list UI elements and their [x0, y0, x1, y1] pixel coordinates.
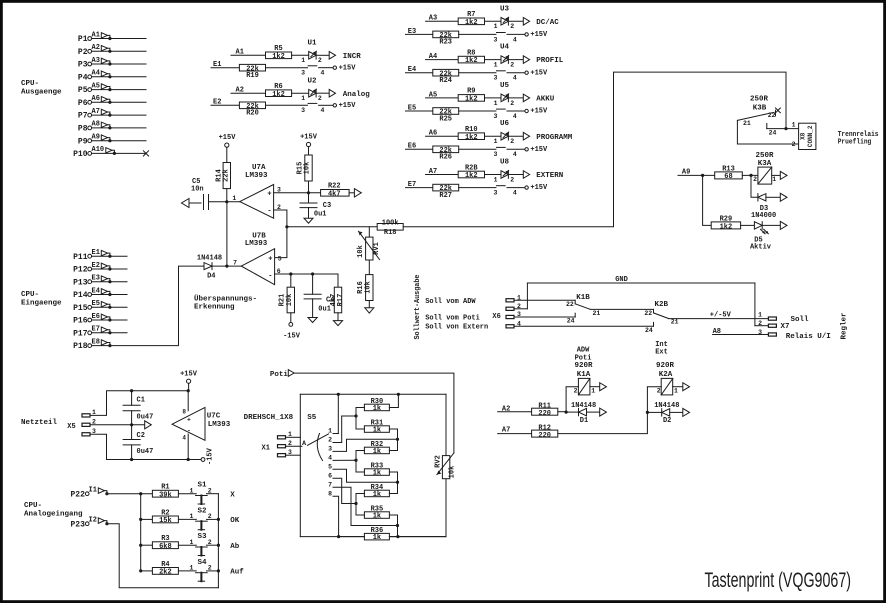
svg-text:250R: 250R [755, 152, 774, 160]
svg-text:4: 4 [513, 75, 517, 82]
svg-text:4: 4 [513, 36, 517, 43]
svg-text:Poti: Poti [270, 371, 289, 379]
svg-text:3: 3 [301, 107, 305, 114]
svg-text:U5: U5 [500, 82, 510, 90]
svg-text:1k2: 1k2 [272, 53, 285, 61]
svg-text:R19: R19 [246, 72, 259, 80]
svg-text:6k8: 6k8 [159, 543, 172, 551]
svg-text:R6: R6 [274, 83, 282, 91]
svg-text:22k: 22k [223, 169, 231, 182]
svg-text:DREHSCH_1X8: DREHSCH_1X8 [244, 414, 294, 422]
svg-text:10k: 10k [449, 466, 457, 479]
svg-text:U4: U4 [500, 44, 510, 52]
svg-text:E7: E7 [408, 181, 416, 189]
svg-text:4: 4 [513, 190, 517, 197]
svg-text:5: 5 [278, 255, 282, 262]
svg-text:-: - [187, 428, 191, 435]
svg-text:3: 3 [493, 190, 497, 197]
svg-text:Pruefling: Pruefling [838, 139, 872, 147]
svg-text:OK: OK [230, 517, 240, 525]
svg-text:Aktiv: Aktiv [750, 244, 772, 252]
svg-text:CONN_2: CONN_2 [807, 125, 814, 147]
svg-text:+15V: +15V [530, 31, 548, 39]
svg-text:22: 22 [644, 310, 652, 317]
svg-text:R5: R5 [274, 45, 282, 53]
svg-text:P22: P22 [70, 490, 85, 499]
svg-text:Poti: Poti [575, 354, 592, 362]
svg-text:CPU-: CPU- [21, 291, 39, 299]
svg-text:1: 1 [189, 565, 193, 572]
svg-text:1k2: 1k2 [465, 134, 478, 142]
svg-text:R18: R18 [384, 229, 397, 237]
svg-text:A10: A10 [92, 146, 105, 154]
svg-text:+15V: +15V [180, 371, 198, 379]
svg-text:6: 6 [328, 473, 332, 480]
svg-text:Ausgaenge: Ausgaenge [21, 89, 62, 97]
svg-text:PROGRAMM: PROGRAMM [536, 134, 573, 142]
svg-text:1k2: 1k2 [272, 91, 285, 99]
svg-text:A5: A5 [429, 91, 437, 99]
svg-text:100k: 100k [382, 220, 399, 228]
svg-text:P17: P17 [73, 329, 88, 338]
svg-text:A7: A7 [429, 168, 437, 176]
svg-text:LM393: LM393 [208, 421, 231, 429]
svg-text:ADW: ADW [577, 347, 590, 355]
svg-text:-15V: -15V [207, 447, 215, 465]
svg-text:1: 1 [792, 122, 796, 129]
svg-text:1N4148: 1N4148 [571, 402, 596, 410]
svg-text:+15V: +15V [530, 69, 548, 77]
svg-text:Sollwert-Ausgabe: Sollwert-Ausgabe [414, 275, 422, 340]
svg-text:24: 24 [645, 327, 653, 334]
svg-text:A7: A7 [92, 108, 100, 116]
svg-text:10n: 10n [191, 186, 204, 194]
svg-text:A9: A9 [682, 169, 690, 177]
svg-text:A: A [302, 440, 306, 447]
svg-text:-15V: -15V [283, 333, 301, 341]
svg-text:1k: 1k [373, 427, 381, 435]
svg-text:1: 1 [328, 428, 332, 435]
svg-text:21: 21 [743, 120, 751, 127]
svg-text:P7: P7 [78, 112, 88, 121]
svg-text:INCR: INCR [343, 53, 362, 61]
svg-text:1: 1 [301, 95, 305, 102]
svg-text:DC/AC: DC/AC [536, 19, 559, 27]
svg-text:P5: P5 [78, 86, 88, 95]
svg-text:1: 1 [494, 62, 498, 69]
svg-text:C2: C2 [137, 432, 145, 440]
svg-text:4k7: 4k7 [328, 190, 341, 198]
svg-text:P18: P18 [73, 342, 88, 351]
svg-text:2: 2 [510, 138, 514, 145]
svg-text:2: 2 [753, 176, 757, 183]
svg-text:1: 1 [301, 57, 305, 64]
svg-text:1: 1 [758, 311, 762, 318]
svg-text:D4: D4 [207, 273, 215, 281]
svg-text:2: 2 [792, 141, 796, 148]
svg-text:2: 2 [328, 437, 332, 444]
svg-text:U3: U3 [500, 5, 510, 13]
svg-text:2: 2 [318, 57, 322, 64]
svg-text:A1: A1 [92, 31, 100, 39]
svg-text:P4: P4 [78, 73, 88, 82]
svg-text:C1: C1 [137, 397, 145, 405]
svg-text:S5: S5 [307, 414, 317, 422]
svg-text:Int: Int [655, 341, 668, 349]
svg-text:0u47: 0u47 [137, 414, 154, 422]
svg-text:1: 1 [494, 138, 498, 145]
svg-text:2: 2 [510, 23, 514, 30]
svg-text:Soll vom Poti: Soll vom Poti [425, 315, 480, 323]
svg-text:1: 1 [494, 100, 498, 107]
svg-text:P3: P3 [78, 61, 88, 70]
svg-text:+: + [268, 256, 272, 264]
svg-text:10k: 10k [364, 281, 372, 294]
svg-text:2: 2 [208, 488, 212, 495]
svg-text:Ext: Ext [655, 349, 668, 357]
svg-text:K2B: K2B [655, 301, 669, 309]
svg-text:0u1: 0u1 [314, 211, 327, 219]
svg-text:E4: E4 [92, 287, 100, 295]
svg-text:220: 220 [538, 432, 551, 440]
svg-text:K1B: K1B [576, 294, 590, 302]
svg-text:E3: E3 [92, 275, 100, 283]
svg-text:+15V: +15V [530, 108, 548, 116]
svg-text:E5: E5 [408, 104, 416, 112]
svg-text:2: 2 [574, 387, 578, 394]
svg-text:S1: S1 [197, 482, 207, 490]
svg-text:+/-5V: +/-5V [710, 311, 732, 319]
svg-text:A9: A9 [92, 134, 100, 142]
svg-text:X5: X5 [67, 423, 75, 431]
svg-text:4: 4 [513, 151, 517, 158]
svg-text:5: 5 [328, 464, 332, 471]
svg-text:Ab: Ab [230, 543, 240, 551]
svg-text:1: 1 [189, 539, 193, 546]
svg-text:U6: U6 [500, 120, 510, 128]
svg-text:1: 1 [772, 176, 776, 183]
svg-text:Soll: Soll [791, 316, 810, 324]
svg-text:1N4148: 1N4148 [654, 402, 679, 410]
svg-text:X7: X7 [781, 323, 790, 331]
svg-text:R27: R27 [439, 192, 452, 200]
svg-text:A3: A3 [92, 57, 100, 65]
svg-text:1k: 1k [373, 470, 381, 478]
svg-text:R23: R23 [439, 39, 452, 47]
svg-text:A5: A5 [92, 82, 100, 90]
svg-text:24: 24 [769, 129, 777, 136]
svg-text:R2B: R2B [465, 164, 478, 172]
svg-text:21: 21 [671, 319, 679, 326]
svg-text:GND: GND [615, 276, 628, 284]
svg-text:A1: A1 [236, 49, 244, 57]
svg-text:39k: 39k [159, 491, 172, 499]
svg-text:S4: S4 [197, 559, 207, 567]
svg-text:10k: 10k [357, 245, 365, 258]
svg-text:A4: A4 [429, 53, 437, 61]
svg-text:24: 24 [567, 318, 575, 325]
svg-text:EXTERN: EXTERN [536, 172, 563, 180]
svg-text:1k2: 1k2 [720, 224, 733, 232]
svg-text:R29: R29 [720, 216, 733, 224]
svg-text:U7A: U7A [252, 164, 266, 172]
svg-text:RV2: RV2 [435, 455, 443, 468]
svg-text:P14: P14 [73, 291, 88, 300]
svg-text:1: 1 [494, 23, 498, 30]
svg-text:R24: R24 [439, 77, 452, 85]
svg-text:LM393: LM393 [245, 240, 268, 248]
svg-text:R10: R10 [465, 126, 478, 134]
svg-text:E6: E6 [92, 313, 100, 321]
svg-text:1k: 1k [373, 513, 381, 521]
svg-text:X6: X6 [492, 313, 500, 321]
svg-text:P2: P2 [78, 48, 88, 57]
svg-text:P23: P23 [70, 520, 85, 529]
svg-text:U8: U8 [500, 159, 510, 167]
svg-text:2: 2 [208, 513, 212, 520]
svg-text:10k: 10k [286, 294, 294, 307]
svg-text:E5: E5 [92, 300, 100, 308]
svg-text:R8: R8 [467, 49, 475, 57]
svg-text:A2: A2 [236, 87, 244, 95]
svg-text:15k: 15k [159, 517, 172, 525]
svg-text:A8: A8 [92, 121, 100, 129]
svg-text:+15V: +15V [339, 64, 357, 72]
svg-text:CPU-: CPU- [24, 502, 42, 510]
svg-text:I2: I2 [89, 517, 97, 525]
svg-text:R26: R26 [439, 154, 452, 162]
svg-text:1k: 1k [373, 491, 381, 499]
svg-text:Auf: Auf [230, 569, 244, 577]
svg-text:21: 21 [593, 310, 601, 317]
svg-text:Soll vom ADW: Soll vom ADW [425, 298, 476, 306]
svg-text:8: 8 [328, 490, 332, 497]
svg-text:X: X [230, 491, 235, 499]
svg-text:+15V: +15V [530, 146, 548, 154]
svg-text:1: 1 [591, 387, 595, 394]
svg-text:220: 220 [538, 410, 551, 418]
svg-text:P10: P10 [73, 150, 88, 159]
svg-text:2: 2 [510, 176, 514, 183]
svg-text:Eingaenge: Eingaenge [21, 300, 62, 308]
svg-text:AKKU: AKKU [536, 96, 555, 104]
svg-text:D1: D1 [580, 417, 588, 425]
svg-text:K3B: K3B [753, 105, 767, 113]
svg-text:P12: P12 [73, 266, 88, 275]
svg-text:Überspannungs-: Überspannungs- [194, 295, 257, 304]
svg-text:P1: P1 [78, 35, 88, 44]
svg-text:2: 2 [510, 62, 514, 69]
svg-text:4: 4 [321, 70, 325, 77]
svg-text:+15V: +15V [219, 134, 237, 142]
svg-text:P15: P15 [73, 304, 88, 313]
svg-text:Erkennung: Erkennung [194, 304, 235, 312]
svg-text:+: + [187, 417, 191, 424]
svg-text:U7C: U7C [207, 413, 221, 421]
svg-text:+15V: +15V [300, 134, 318, 142]
svg-text:Soll von Extern: Soll von Extern [425, 324, 488, 332]
svg-text:-: - [268, 273, 272, 281]
svg-text:R17: R17 [337, 294, 345, 307]
svg-text:R9: R9 [467, 88, 475, 96]
svg-text:U1: U1 [308, 40, 318, 48]
svg-text:E6: E6 [408, 143, 416, 151]
svg-text:R7: R7 [467, 11, 475, 19]
svg-text:1k2: 1k2 [465, 57, 478, 65]
svg-text:E1: E1 [92, 249, 100, 257]
svg-text:1: 1 [189, 488, 193, 495]
svg-text:E1: E1 [213, 61, 221, 69]
svg-text:PROFIL: PROFIL [536, 57, 564, 65]
svg-text:R12: R12 [538, 424, 551, 432]
svg-text:A3: A3 [429, 15, 437, 23]
svg-text:4: 4 [513, 113, 517, 120]
svg-text:P16: P16 [73, 317, 88, 326]
svg-text:3: 3 [328, 446, 332, 453]
svg-text:-: - [267, 208, 271, 216]
svg-text:1: 1 [232, 195, 236, 202]
svg-text:U2: U2 [308, 77, 318, 85]
svg-text:1N4148: 1N4148 [197, 255, 222, 263]
svg-text:4: 4 [328, 455, 332, 462]
svg-text:2: 2 [510, 100, 514, 107]
svg-text:1k: 1k [373, 405, 381, 413]
svg-text:1k2: 1k2 [465, 172, 478, 180]
svg-text:Analog: Analog [343, 91, 371, 99]
svg-text:1N4000: 1N4000 [751, 212, 776, 220]
svg-text:3: 3 [493, 75, 497, 82]
svg-text:S3: S3 [197, 533, 207, 541]
svg-text:I1: I1 [89, 487, 97, 495]
svg-text:P11: P11 [73, 253, 88, 262]
svg-text:1: 1 [494, 176, 498, 183]
svg-text:S2: S2 [197, 507, 207, 515]
svg-text:P9: P9 [78, 137, 88, 146]
svg-text:920R: 920R [574, 362, 593, 370]
svg-text:C3: C3 [323, 202, 331, 210]
svg-text:R22: R22 [328, 182, 341, 190]
svg-text:P13: P13 [73, 278, 88, 287]
svg-text:4: 4 [182, 435, 186, 442]
svg-text:Netzteil: Netzteil [21, 419, 58, 427]
svg-text:E4: E4 [408, 66, 416, 74]
svg-text:8: 8 [182, 409, 186, 416]
svg-text:250R: 250R [750, 96, 769, 104]
svg-text:1: 1 [674, 387, 678, 394]
svg-text:0u47: 0u47 [137, 448, 154, 456]
svg-text:R11: R11 [538, 402, 551, 410]
svg-text:2: 2 [318, 95, 322, 102]
svg-text:A2: A2 [92, 44, 100, 52]
svg-text:7: 7 [233, 259, 237, 266]
svg-text:R25: R25 [439, 115, 452, 123]
svg-text:E3: E3 [408, 28, 416, 36]
svg-text:R13: R13 [722, 165, 735, 173]
svg-text:2: 2 [208, 565, 212, 572]
svg-text:920R: 920R [656, 362, 675, 370]
svg-text:E7: E7 [92, 326, 100, 334]
svg-text:Relais U/I: Relais U/I [786, 333, 831, 341]
svg-text:Tastenprint (VQG9067): Tastenprint (VQG9067) [705, 569, 852, 592]
svg-text:E2: E2 [92, 262, 100, 270]
svg-text:3: 3 [493, 113, 497, 120]
svg-text:E2: E2 [213, 99, 221, 107]
svg-text:+: + [267, 190, 271, 198]
svg-text:P8: P8 [78, 125, 88, 134]
svg-text:2: 2 [758, 320, 762, 327]
svg-text:A4: A4 [92, 70, 100, 78]
svg-text:Regler: Regler [841, 312, 849, 339]
svg-text:A6: A6 [92, 95, 100, 103]
svg-text:2: 2 [657, 387, 661, 394]
svg-text:1k2: 1k2 [465, 19, 478, 27]
svg-text:LM393: LM393 [245, 172, 268, 180]
svg-text:+15V: +15V [530, 184, 548, 192]
svg-text:10k: 10k [304, 162, 312, 175]
svg-text:CPU-: CPU- [21, 80, 39, 88]
svg-text:2: 2 [208, 539, 212, 546]
svg-text:1k: 1k [373, 448, 381, 456]
svg-text:3: 3 [493, 151, 497, 158]
svg-text:22: 22 [566, 301, 574, 308]
svg-text:X8: X8 [799, 132, 806, 140]
svg-text:68: 68 [724, 173, 732, 181]
svg-text:1k: 1k [373, 534, 381, 542]
svg-text:1: 1 [189, 513, 193, 520]
svg-text:R20: R20 [246, 110, 259, 118]
svg-text:7: 7 [328, 482, 332, 489]
svg-text:P6: P6 [78, 99, 88, 108]
svg-text:Analogeingang: Analogeingang [24, 511, 83, 519]
svg-text:4: 4 [321, 107, 325, 114]
svg-text:3: 3 [493, 36, 497, 43]
svg-text:X1: X1 [262, 445, 270, 453]
svg-text:3: 3 [301, 70, 305, 77]
svg-text:2k2: 2k2 [159, 569, 172, 577]
svg-text:1k2: 1k2 [465, 96, 478, 104]
svg-text:E8: E8 [92, 338, 100, 346]
svg-text:A6: A6 [429, 130, 437, 138]
svg-text:D2: D2 [663, 417, 671, 425]
svg-text:+15V: +15V [339, 102, 357, 110]
